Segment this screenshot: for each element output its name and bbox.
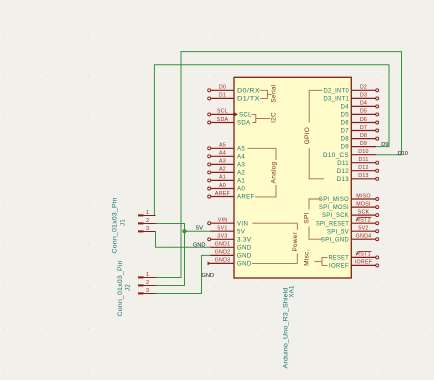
pin SDA (SDA) left side xyxy=(208,121,234,124)
svg-text:Power: Power xyxy=(292,231,299,251)
pin MOSI (SPI_MOSI) right side xyxy=(351,206,378,209)
pin A5 (A5) left side xyxy=(208,147,234,150)
svg-text:D7: D7 xyxy=(360,125,367,131)
svg-text:SPI: SPI xyxy=(304,212,311,223)
pin D5 (D5) right side xyxy=(351,113,378,116)
svg-text:SPI_RESET: SPI_RESET xyxy=(316,220,349,227)
svg-text:GND: GND xyxy=(193,243,206,249)
pin D9 (D9) right side xyxy=(351,146,376,148)
pin name SCL xyxy=(234,112,238,116)
pin A2 (A2) left side xyxy=(208,171,234,174)
svg-text:5V1: 5V1 xyxy=(217,226,227,232)
svg-text:D1: D1 xyxy=(219,93,226,99)
svg-text:D5: D5 xyxy=(341,112,350,119)
svg-text:GND: GND xyxy=(237,244,252,251)
svg-text:D3: D3 xyxy=(360,93,367,99)
svg-text:Arduino_Uno_R3_Shield: Arduino_Uno_R3_Shield xyxy=(283,288,289,369)
pin GND3 (GND) left side xyxy=(208,262,235,266)
svg-text:XA1: XA1 xyxy=(289,285,296,298)
pin D8 (D8) right side xyxy=(351,137,378,140)
svg-text:A5: A5 xyxy=(237,145,245,152)
svg-text:RST2: RST2 xyxy=(356,218,371,224)
svg-text:J2: J2 xyxy=(125,284,132,291)
svg-text:AREF: AREF xyxy=(215,191,231,197)
pin RST1 (RESET) right side xyxy=(351,256,378,259)
pin D10 (D10_CS) right side xyxy=(351,154,376,156)
svg-text:D9: D9 xyxy=(360,141,367,147)
svg-text:D7: D7 xyxy=(341,128,350,135)
svg-text:A5: A5 xyxy=(219,143,226,149)
pin SCL (SCL) left side xyxy=(208,113,234,116)
svg-text:Analog: Analog xyxy=(271,162,278,184)
svg-text:5V: 5V xyxy=(237,228,246,235)
svg-text:A3: A3 xyxy=(237,162,245,169)
svg-text:AREF: AREF xyxy=(237,194,255,201)
svg-text:RST1: RST1 xyxy=(356,252,371,258)
wire net GND (GND2 pin to J2 pin3) xyxy=(156,255,212,293)
svg-text:D10: D10 xyxy=(398,151,408,157)
svg-text:GND: GND xyxy=(202,273,215,279)
svg-text:Misc.: Misc. xyxy=(304,249,311,265)
pin D12 (D12) right side xyxy=(351,169,378,172)
group bracket Analog xyxy=(248,148,277,197)
svg-text:MOSI: MOSI xyxy=(356,201,371,207)
svg-text:D13: D13 xyxy=(337,176,349,183)
svg-text:5V2: 5V2 xyxy=(358,226,368,232)
svg-text:IOREF: IOREF xyxy=(355,260,373,266)
svg-text:GND1: GND1 xyxy=(215,242,231,248)
svg-text:D12: D12 xyxy=(337,168,349,175)
wire net D9 (D9 pin to J1 pin1) xyxy=(154,65,389,216)
connector J2 xyxy=(138,276,156,294)
svg-text:A2: A2 xyxy=(237,170,245,177)
svg-text:D10_CS: D10_CS xyxy=(323,152,349,159)
pin A3 (A3) left side xyxy=(208,163,234,166)
pin A1 (A1) left side xyxy=(208,179,234,182)
svg-text:D1/TX: D1/TX xyxy=(237,96,260,103)
svg-text:D9: D9 xyxy=(341,144,350,151)
svg-text:D9: D9 xyxy=(381,142,388,148)
svg-text:A4: A4 xyxy=(237,153,245,160)
Arduino shield XA1 body xyxy=(234,77,351,278)
svg-text:A1: A1 xyxy=(237,178,245,185)
svg-text:Conn_01x03_Pin: Conn_01x03_Pin xyxy=(118,261,124,317)
svg-text:SPI_SCK: SPI_SCK xyxy=(322,212,349,219)
pin D2 (D2_INT0) right side xyxy=(351,89,378,92)
svg-text:D0/RX: D0/RX xyxy=(237,87,260,94)
svg-text:SCL: SCL xyxy=(239,112,252,119)
svg-text:3V3: 3V3 xyxy=(217,234,227,240)
pin number label RST1 xyxy=(359,251,372,253)
svg-text:D5: D5 xyxy=(360,109,367,115)
pin VIN (VIN) left side xyxy=(208,222,234,225)
pin D0 (D0/RX) left side xyxy=(208,89,234,92)
svg-text:IOREF: IOREF xyxy=(329,263,349,270)
svg-text:RESET: RESET xyxy=(329,255,350,262)
svg-text:3.3V: 3.3V xyxy=(237,236,252,243)
svg-text:I2C: I2C xyxy=(270,112,277,123)
svg-text:D11: D11 xyxy=(337,160,349,167)
svg-text:GND3: GND3 xyxy=(215,258,231,264)
svg-text:Serial: Serial xyxy=(270,84,277,102)
pin D3 (D3_INT1) right side xyxy=(351,97,378,100)
group bracket Serial xyxy=(260,90,272,98)
wire net 5V (J1 pin2 / 5V1 pin / J2 pin2) xyxy=(156,224,212,286)
pin GND4 (SPI_GND) right side xyxy=(351,238,378,241)
pin 3V3 (3.3V) left side xyxy=(208,238,234,241)
svg-text:5V: 5V xyxy=(196,226,203,232)
pin D13 (D13) right side xyxy=(351,177,378,180)
svg-text:GND2: GND2 xyxy=(215,250,231,256)
pin D11 (D11) right side xyxy=(351,161,378,164)
svg-text:SPI_MOSI: SPI_MOSI xyxy=(319,204,349,211)
svg-text:D13: D13 xyxy=(358,173,368,179)
pin IOREF (IOREF) right side xyxy=(351,264,378,267)
svg-text:2: 2 xyxy=(146,280,149,286)
pin AREF (AREF) left side xyxy=(208,195,234,198)
pin D7 (D7) right side xyxy=(351,129,378,132)
svg-text:GND: GND xyxy=(237,261,252,268)
svg-text:3: 3 xyxy=(146,226,149,232)
pin D6 (D6) right side xyxy=(351,121,378,124)
pin GND2 (GND) left side xyxy=(211,254,235,256)
svg-text:D4: D4 xyxy=(341,104,350,111)
svg-text:D11: D11 xyxy=(358,157,368,163)
svg-text:D2_INT0: D2_INT0 xyxy=(324,87,350,94)
svg-text:Conn_01x03_Pin: Conn_01x03_Pin xyxy=(113,198,119,254)
svg-text:SDA: SDA xyxy=(217,117,229,123)
pin A4 (A4) left side xyxy=(208,155,234,158)
svg-text:VIN: VIN xyxy=(237,220,248,227)
group bracket Misc xyxy=(315,257,328,265)
svg-text:D3_INT1: D3_INT1 xyxy=(324,96,350,103)
svg-text:D4: D4 xyxy=(360,101,367,107)
svg-text:GND4: GND4 xyxy=(356,234,372,240)
svg-text:A3: A3 xyxy=(219,159,226,165)
pin MISO (SPI_MISO) right side xyxy=(351,198,378,201)
svg-text:D2: D2 xyxy=(360,85,367,91)
svg-text:D0: D0 xyxy=(219,85,226,91)
group bracket Power xyxy=(252,223,297,263)
svg-text:D6: D6 xyxy=(360,117,367,123)
svg-text:SDA: SDA xyxy=(237,120,251,127)
svg-text:GND: GND xyxy=(237,253,252,260)
svg-text:1: 1 xyxy=(146,272,149,278)
svg-text:A2: A2 xyxy=(219,167,226,173)
pin D1 (D1/TX) left side xyxy=(208,97,234,100)
svg-text:1: 1 xyxy=(146,210,149,216)
svg-text:A0: A0 xyxy=(237,186,245,193)
svg-text:D8: D8 xyxy=(360,133,367,139)
svg-text:D6: D6 xyxy=(341,120,350,127)
svg-text:SCK: SCK xyxy=(358,209,370,215)
svg-text:VIN: VIN xyxy=(218,218,228,224)
svg-text:A4: A4 xyxy=(219,151,226,157)
svg-text:SPI_MISO: SPI_MISO xyxy=(319,196,349,203)
svg-text:MISO: MISO xyxy=(356,193,371,199)
svg-text:D12: D12 xyxy=(358,165,368,171)
pin number label RST2 xyxy=(359,216,372,218)
pin A0 (A0) left side xyxy=(208,187,234,190)
group bracket GPIO xyxy=(309,90,324,179)
pin D4 (D4) right side xyxy=(351,105,378,108)
pin SCK (SPI_SCK) right side xyxy=(351,214,378,217)
wire net GND (J1 pin3 to GND1 pin) xyxy=(156,232,212,248)
svg-text:GPIO: GPIO xyxy=(304,127,311,144)
svg-text:SPI_GND: SPI_GND xyxy=(321,236,349,243)
group bracket I2C xyxy=(252,114,271,122)
connector J1 xyxy=(138,214,156,232)
svg-text:J1: J1 xyxy=(120,219,127,226)
svg-text:SPI_5V: SPI_5V xyxy=(327,228,350,235)
svg-text:3: 3 xyxy=(146,288,149,294)
wire net D10 (D10 pin to J2 pin1) xyxy=(156,52,402,278)
svg-text:D8: D8 xyxy=(341,136,350,143)
svg-text:A1: A1 xyxy=(219,175,226,181)
svg-text:SCL: SCL xyxy=(217,109,228,115)
junction on 5V net xyxy=(182,229,186,233)
svg-text:A0: A0 xyxy=(219,183,226,189)
pin RST2 (SPI_RESET) right side xyxy=(351,222,378,225)
group bracket SPI xyxy=(309,199,322,239)
pin 5V1 (5V) left side xyxy=(211,230,235,232)
pin GND1 (GND) left side xyxy=(211,246,235,248)
svg-text:D10: D10 xyxy=(358,149,368,155)
svg-text:2: 2 xyxy=(146,218,149,224)
pin 5V2 (SPI_5V) right side xyxy=(351,230,378,233)
